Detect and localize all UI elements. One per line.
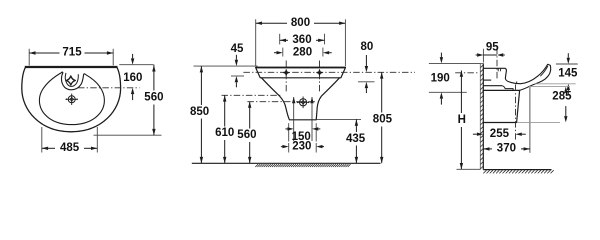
dim 805 bbox=[381, 72, 383, 112]
siphon cover bottom edge bbox=[289, 119, 316, 121]
svg-text:45: 45 bbox=[231, 43, 244, 55]
basin profile side view bbox=[483, 67, 505, 69]
dim 800 bbox=[255, 19, 257, 66]
svg-text:95: 95 bbox=[486, 42, 499, 54]
drain symbol front view bbox=[300, 99, 307, 106]
centerline to 560 bbox=[247, 101, 316, 103]
bowl ledge U-band inner bbox=[65, 73, 78, 86]
dim 190 bbox=[429, 62, 480, 64]
dim 230 bbox=[288, 143, 290, 153]
drain center line bbox=[515, 85, 517, 140]
dim 160 bbox=[119, 64, 153, 66]
inner bowl outline with ledge notch bbox=[39, 72, 104, 125]
svg-text:435: 435 bbox=[346, 133, 366, 145]
front view rim bbox=[256, 68, 346, 78]
fixing hole left bbox=[285, 61, 287, 94]
floor ref left of wall bbox=[457, 168, 481, 170]
drain pipe edge lines with arrows bbox=[293, 97, 295, 141]
dim 45 bbox=[231, 75, 244, 77]
svg-text:190: 190 bbox=[431, 72, 450, 84]
dim 610 bbox=[224, 95, 226, 126]
wall section bbox=[480, 60, 483, 173]
fixing hole right bbox=[319, 61, 321, 94]
dim 95 bbox=[482, 49, 484, 63]
dim 435 bbox=[316, 118, 361, 120]
svg-text:285: 285 bbox=[552, 90, 572, 102]
svg-text:610: 610 bbox=[215, 127, 234, 139]
svg-text:255: 255 bbox=[490, 128, 510, 140]
svg-text:280: 280 bbox=[293, 46, 312, 58]
centerline to 610 bbox=[222, 94, 282, 96]
svg-text:230: 230 bbox=[292, 141, 311, 153]
rim top reference line bbox=[194, 65, 258, 67]
dim 280 bbox=[282, 48, 284, 57]
dim 485 bbox=[41, 127, 43, 153]
front view body left side bbox=[262, 78, 290, 120]
dim 145 bbox=[556, 63, 578, 65]
drain symbol bbox=[68, 96, 75, 103]
svg-text:370: 370 bbox=[497, 143, 516, 155]
svg-text:560: 560 bbox=[144, 92, 163, 104]
dim 715 bbox=[28, 49, 30, 66]
siphon cover side view bbox=[483, 90, 519, 122]
dim 150 bbox=[288, 123, 290, 141]
dim 850 bbox=[200, 66, 202, 105]
tap hole symbol bbox=[66, 76, 75, 85]
fixing hole center line bbox=[243, 71, 415, 73]
front view body right side bbox=[316, 78, 339, 120]
svg-text:H: H bbox=[458, 114, 466, 126]
tap hole center line bbox=[496, 48, 498, 81]
center line through bowl bbox=[78, 87, 140, 89]
dim 255 bbox=[488, 130, 511, 139]
floor line side view bbox=[483, 169, 551, 171]
dim 560 left-view bbox=[94, 134, 162, 136]
dim 560 front view bbox=[249, 102, 251, 129]
svg-text:360: 360 bbox=[292, 34, 311, 46]
floor hatch front view bbox=[255, 164, 350, 167]
svg-text:715: 715 bbox=[62, 47, 82, 59]
dim 370 bbox=[529, 86, 531, 153]
dim 360 bbox=[279, 34, 281, 45]
svg-text:800: 800 bbox=[291, 17, 310, 29]
svg-text:160: 160 bbox=[123, 72, 142, 84]
washbasin top view outline bbox=[22, 67, 121, 132]
svg-text:80: 80 bbox=[361, 41, 374, 53]
svg-text:145: 145 bbox=[558, 67, 578, 79]
floor line front view bbox=[192, 162, 381, 164]
svg-text:805: 805 bbox=[373, 114, 393, 126]
fixing line left of wall bbox=[455, 72, 479, 74]
svg-text:850: 850 bbox=[190, 106, 209, 118]
svg-text:560: 560 bbox=[237, 129, 256, 141]
svg-text:485: 485 bbox=[60, 142, 80, 154]
dim 80 bbox=[358, 81, 375, 83]
dim 285 bbox=[529, 86, 570, 88]
dim H bbox=[460, 71, 462, 114]
